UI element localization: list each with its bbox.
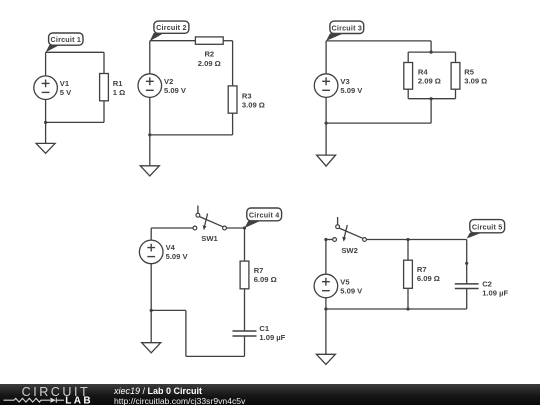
wire: V1 bottom lead — [45, 100, 47, 123]
ground: circuit 1 — [36, 143, 55, 153]
node: C2 ground junction — [148, 133, 151, 136]
label: Circuit 3 callout — [326, 21, 364, 41]
svg-text:V4: V4 — [166, 243, 176, 252]
node: C3 ground junction — [325, 122, 328, 125]
label: Circuit 4 callout — [245, 208, 282, 228]
wire: R7 top lead — [407, 240, 409, 261]
wire: R5 top lead — [455, 52, 457, 62]
voltage source V3 — [314, 74, 363, 98]
node: SW1 output corner — [243, 226, 246, 229]
resistor R7 (circuit 4) — [240, 261, 277, 289]
voltage source V4 — [139, 240, 188, 264]
wire: SW1 to R7 corner — [226, 227, 244, 229]
svg-text:5 V: 5 V — [60, 88, 72, 97]
wire: C3 drop to parallel pair — [430, 41, 432, 52]
wire: C5 bottom rail — [326, 308, 467, 310]
wire: junction to SW2 — [326, 239, 333, 241]
svg-text:Circuit 1: Circuit 1 — [51, 35, 82, 44]
node: parallel bottom junction — [430, 97, 433, 100]
wire: V1 top lead — [45, 52, 47, 76]
svg-text:R3: R3 — [242, 92, 252, 101]
wire: V5 bottom lead — [325, 298, 327, 309]
svg-text:5.09 V: 5.09 V — [164, 86, 187, 95]
footer bar — [0, 384, 540, 405]
ground: circuit 4 — [142, 343, 161, 353]
wire: V5 top lead — [325, 240, 327, 275]
wire: R4 bottom lead — [407, 89, 409, 99]
wire: C2 top rail left — [150, 40, 196, 42]
capacitor C2 — [455, 280, 509, 298]
footer url line — [114, 396, 245, 405]
ground: circuit 3 — [317, 155, 336, 166]
svg-text:SW2: SW2 — [341, 246, 357, 255]
wire: R4 top lead — [407, 52, 409, 62]
wire: C3 ground stem — [325, 123, 327, 155]
wire: C1 bottom rail — [46, 121, 104, 123]
svg-text:C2: C2 — [482, 280, 492, 289]
node: C4 ground junction — [150, 309, 153, 312]
node: parallel top junction — [430, 51, 433, 54]
svg-text:2.09 Ω: 2.09 Ω — [418, 77, 441, 86]
capacitor C1 — [233, 324, 286, 342]
logo CIRCUIT wordmark — [0, 384, 110, 405]
wire: R3 bottom — [232, 113, 234, 135]
svg-text:Circuit 4: Circuit 4 — [249, 211, 280, 220]
wire: C2 bottom lead — [466, 289, 468, 310]
wire: C3 bottom rail — [326, 122, 431, 124]
node: C1 ground junction — [44, 121, 47, 124]
svg-text:2.09 Ω: 2.09 Ω — [198, 59, 221, 68]
wire: V4 to SW1 — [151, 227, 193, 229]
node: R7 top junction — [406, 238, 409, 241]
svg-text:R1: R1 — [113, 79, 123, 88]
svg-text:SW1: SW1 — [201, 234, 218, 243]
svg-text:R2: R2 — [204, 50, 214, 59]
svg-text:Circuit 2: Circuit 2 — [156, 23, 187, 32]
wire: corner down to R7 — [244, 228, 246, 261]
svg-text:V2: V2 — [164, 77, 173, 86]
svg-text:5.09 V: 5.09 V — [340, 86, 363, 95]
wire: bottom run C1 to riser — [186, 355, 245, 357]
voltage source V1 — [34, 76, 72, 100]
switch SW2 — [333, 217, 367, 255]
ground: circuit 2 — [140, 166, 159, 176]
resistor R1 — [100, 74, 126, 101]
wire: C1 top rail — [46, 51, 104, 53]
logo resistor squiggle + diode — [4, 398, 65, 403]
wire: C2 right drop to R3 — [232, 41, 234, 86]
wire: parallel pair to bottom rail — [430, 99, 432, 123]
svg-text:R5: R5 — [464, 68, 474, 77]
resistor R4 — [404, 63, 441, 90]
wire: R7 to C1 — [244, 289, 246, 331]
ground: circuit 5 — [316, 354, 335, 364]
wire: SW2 to R7 top — [366, 239, 408, 241]
wire: V2 bottom lead — [149, 97, 151, 134]
wire: V4 top lead — [150, 228, 152, 240]
wire: R1 bottom — [103, 101, 105, 123]
svg-text:5.09 V: 5.09 V — [340, 286, 363, 295]
svg-text:V3: V3 — [340, 77, 349, 86]
wire: R7 bottom lead — [407, 288, 409, 309]
footer title line — [114, 386, 202, 396]
wire: R7 top to label corner — [408, 239, 467, 241]
svg-text:1.09 µF: 1.09 µF — [482, 289, 508, 298]
wire: parallel bottom bar — [408, 98, 455, 100]
wire: riser to V4 bottom — [151, 309, 186, 311]
wire: C2 bottom rail — [150, 134, 233, 136]
wire: R5 bottom lead — [455, 89, 457, 99]
resistor R3 — [228, 86, 265, 113]
wire: V3 bottom lead — [325, 97, 327, 123]
wire: C1 ground stem — [45, 122, 47, 143]
switch SW1 — [193, 206, 226, 243]
svg-text:R7: R7 — [417, 265, 427, 274]
svg-text:3.09 Ω: 3.09 Ω — [464, 77, 487, 86]
wire: parallel top bar — [408, 51, 455, 53]
wire: C4 ground stem — [150, 310, 152, 342]
svg-text:5.09 V: 5.09 V — [166, 252, 189, 261]
node: V5 top junction — [324, 238, 327, 241]
wire: V3 top lead — [325, 41, 327, 74]
node: C2 top node dot — [465, 262, 468, 265]
svg-text:R4: R4 — [418, 68, 428, 77]
svg-text:1.09 µF: 1.09 µF — [259, 333, 285, 342]
svg-text:1 Ω: 1 Ω — [113, 88, 125, 97]
wire: corner down to C2 — [466, 240, 468, 284]
svg-text:V5: V5 — [340, 277, 350, 286]
node: C5 ground junction — [324, 307, 327, 310]
label: Circuit 2 callout — [150, 21, 189, 41]
voltage source V5 — [314, 274, 363, 298]
resistor R5 — [451, 63, 487, 90]
voltage source V2 — [138, 74, 187, 98]
svg-text:6.09 Ω: 6.09 Ω — [417, 274, 440, 283]
label: Circuit 1 callout — [46, 33, 83, 52]
svg-text:V1: V1 — [60, 79, 70, 88]
resistor R2 — [195, 37, 223, 68]
svg-text:R7: R7 — [254, 266, 264, 275]
wire: C2 top rail right — [223, 40, 232, 42]
resistor R7 (circuit 5) — [404, 260, 440, 288]
svg-text:6.09 Ω: 6.09 Ω — [254, 275, 277, 284]
wire: C5 ground stem — [325, 309, 327, 354]
node: R7 bottom junction — [406, 307, 409, 310]
wire: C1 right drop to R1 — [103, 52, 105, 73]
wire: V4 bottom lead — [150, 264, 152, 311]
wire: C1 bottom lead — [244, 336, 246, 356]
wire: C3 top rail — [326, 40, 431, 42]
label: Circuit 5 callout — [467, 220, 505, 239]
wire: V2 top lead — [149, 41, 151, 74]
svg-text:Circuit 5: Circuit 5 — [472, 222, 503, 231]
wire: riser — [185, 310, 187, 356]
svg-text:Circuit 3: Circuit 3 — [332, 23, 363, 32]
wire: C2 ground stem — [149, 135, 151, 166]
svg-text:LAB: LAB — [65, 396, 93, 405]
svg-text:3.09 Ω: 3.09 Ω — [242, 101, 265, 110]
svg-text:C1: C1 — [259, 324, 269, 333]
